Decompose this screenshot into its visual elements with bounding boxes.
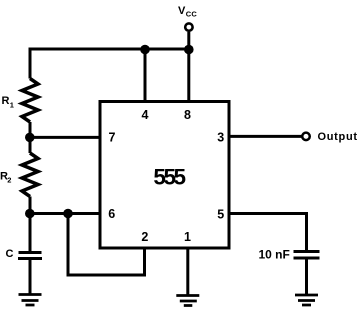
svg-text:7: 7: [109, 131, 116, 145]
svg-text:6: 6: [108, 207, 115, 221]
svg-text:1: 1: [184, 230, 191, 244]
svg-text:4: 4: [142, 108, 149, 122]
svg-text:C: C: [6, 248, 14, 260]
svg-text:10 nF: 10 nF: [259, 248, 290, 262]
svg-text:2: 2: [141, 230, 148, 244]
svg-text:R: R: [2, 95, 10, 107]
svg-text:8: 8: [184, 108, 191, 122]
svg-text:5: 5: [217, 208, 224, 222]
svg-text:V: V: [178, 5, 186, 17]
svg-text:3: 3: [217, 131, 224, 145]
svg-text:555: 555: [153, 165, 185, 190]
svg-text:1: 1: [10, 101, 14, 110]
svg-text:Output: Output: [318, 131, 358, 143]
svg-text:CC: CC: [186, 10, 198, 19]
svg-text:2: 2: [7, 176, 11, 185]
